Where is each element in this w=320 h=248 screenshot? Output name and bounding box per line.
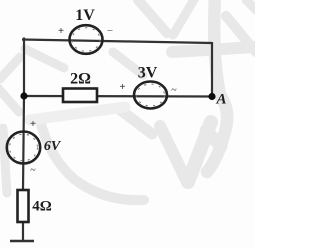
svg-text:2Ω: 2Ω bbox=[70, 71, 91, 88]
resistor 4Ω bbox=[18, 190, 52, 222]
svg-text:1V: 1V bbox=[75, 7, 95, 24]
svg-text:A: A bbox=[215, 92, 226, 108]
svg-text:+: + bbox=[119, 81, 125, 93]
node A bbox=[208, 92, 226, 108]
wire left vertical bbox=[23, 38, 25, 97]
voltage source 6V bbox=[7, 118, 62, 176]
wire bottom bar bbox=[10, 240, 34, 242]
svg-text:4Ω: 4Ω bbox=[32, 199, 52, 215]
svg-text:6V: 6V bbox=[44, 139, 62, 154]
watermark bbox=[0, 0, 256, 200]
svg-text:~: ~ bbox=[30, 165, 36, 176]
wire bottom vertical bbox=[23, 96, 24, 241]
wire top horizontal bbox=[22, 40, 212, 44]
wire middle horizontal bbox=[24, 95, 212, 98]
resistor 2Ω bbox=[63, 71, 97, 103]
junction node left bbox=[20, 92, 27, 99]
svg-text:+: + bbox=[58, 25, 64, 37]
wire right vertical bbox=[211, 42, 213, 97]
voltage source 3V bbox=[119, 65, 177, 109]
svg-text:3V: 3V bbox=[138, 65, 158, 82]
voltage source 1V bbox=[58, 7, 114, 54]
svg-text:+: + bbox=[30, 118, 36, 130]
svg-text:–: – bbox=[107, 25, 114, 36]
svg-text:~: ~ bbox=[171, 85, 177, 96]
